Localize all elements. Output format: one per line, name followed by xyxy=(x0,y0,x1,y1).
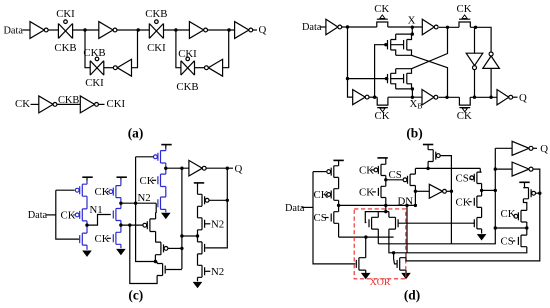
ground branch1 (c) xyxy=(83,251,91,257)
label Data (d) xyxy=(285,203,305,214)
svg-text:CK: CK xyxy=(15,98,30,110)
label CK of Md (d) xyxy=(359,165,374,177)
transistor Mx4 xor (d) xyxy=(397,258,406,270)
label XB (b) xyxy=(410,98,423,111)
wire T12 gate lead (c) xyxy=(166,269,182,271)
wire U5 out right (b) xyxy=(369,96,377,98)
wire feedback inv2 to node D xyxy=(223,30,229,68)
wire input gate line (c) xyxy=(56,190,80,239)
inverter 4 (a) xyxy=(235,22,253,39)
wire Mi gate lead (d) xyxy=(469,201,472,203)
node inverter tap (c) xyxy=(180,167,183,170)
svg-text:CS: CS xyxy=(389,169,402,181)
feedback inverter U11 (d) xyxy=(512,162,533,176)
wire Ml gate lead (d) xyxy=(513,215,516,217)
svg-text:CK: CK xyxy=(375,110,390,122)
wire Mx1 bottom down (d) xyxy=(377,229,379,244)
wire Mx4 top stub up (d) xyxy=(405,253,407,258)
label CK of Ml (d) xyxy=(501,208,516,220)
wire branch3 out to inverter (c) xyxy=(166,167,189,169)
wire bottom rail (d) xyxy=(495,227,527,229)
svg-text:CS-: CS- xyxy=(456,172,473,184)
transmission gate TG2 (a) xyxy=(149,20,163,39)
svg-text:CS: CS xyxy=(501,236,514,248)
transistor T6 blue nmos (c) xyxy=(113,232,121,244)
wire Mc gate lead (d) xyxy=(325,217,329,219)
wire keeper gate line (c) xyxy=(181,168,183,269)
label Data (c) xyxy=(28,210,48,221)
wire U6 out right (b) xyxy=(439,96,460,98)
vdd bar stack2 (d) xyxy=(377,157,387,159)
node DN tap3 (d) xyxy=(414,204,417,207)
node U9 out (d) xyxy=(450,190,453,193)
transistor Mc (d) xyxy=(331,212,338,224)
wire Md gate lead (d) xyxy=(371,169,374,171)
wire Mx2 bottom down (d) xyxy=(389,229,394,253)
wire Mx3 top stub up (d) xyxy=(365,237,367,258)
node B (a) xyxy=(137,28,140,31)
svg-text:CK: CK xyxy=(359,165,374,177)
wire Mf out to inverter (d) xyxy=(415,190,429,192)
label CKB below TG1 xyxy=(54,42,76,54)
wire inv2 to TG2 xyxy=(117,29,149,31)
svg-text:N2: N2 xyxy=(211,218,224,230)
node CS out (d) xyxy=(384,178,387,181)
label CK of M1 xyxy=(374,3,389,15)
wire Mk rail (d) xyxy=(523,182,526,210)
wire U5 out up to upper gate (b) xyxy=(375,45,388,97)
wire CK lead T2 (c) xyxy=(73,214,74,216)
node D (a) xyxy=(227,28,230,31)
inverter 1 (a) xyxy=(30,22,48,39)
wire xor source feedback rail (d) xyxy=(378,148,495,244)
wire N1 to T5 gate (c) xyxy=(87,215,111,226)
transistor T9 blue nmos (c) xyxy=(158,197,166,209)
label Q (b) xyxy=(519,92,527,104)
svg-text:X: X xyxy=(408,14,416,26)
node lower tap (c) xyxy=(128,223,131,226)
wire INVB input (d) xyxy=(495,168,512,170)
svg-text:XOR: XOR xyxy=(370,277,391,288)
svg-text:CKI: CKI xyxy=(178,48,197,60)
label N2 of T16 (c) xyxy=(211,266,224,278)
transistor Mk pmos mirrored (d) xyxy=(523,188,535,199)
svg-text:CS: CS xyxy=(314,212,327,224)
transistor Mm (d) xyxy=(518,235,526,247)
wire rail to stack5 top (d) xyxy=(479,168,481,172)
wire inv4 to Q xyxy=(253,29,257,31)
transistor T4 blue pmos (c) xyxy=(109,186,121,198)
wire node A down to feedback TG1 xyxy=(85,30,90,68)
clocked pass transistor M2 (b) xyxy=(459,18,470,27)
caption (a) xyxy=(128,125,144,140)
node N2 branch2 (c) xyxy=(119,202,122,205)
wire DN net (d) xyxy=(339,204,416,206)
node buffer line INVB in (d) xyxy=(494,167,497,170)
transistor Mg pmos mirrored (d) xyxy=(428,150,440,162)
label CK of Me (d) xyxy=(359,187,374,199)
label CK of M2 xyxy=(457,3,472,15)
transistor T10 pmos (c) xyxy=(143,219,156,232)
svg-text:CK: CK xyxy=(457,3,472,15)
ground xor left (d) xyxy=(362,273,370,279)
wire M5 drain rail to XB (b) xyxy=(411,89,413,97)
wire U9 out (d) xyxy=(447,190,452,192)
wire node C down to feedback TG2 xyxy=(176,30,181,68)
wire T12 top stub (c) xyxy=(156,262,158,264)
wire N2 drop to T10 (c) xyxy=(155,203,158,212)
input inverter U1 (b) xyxy=(326,19,342,35)
vdd bar Mg (d) xyxy=(423,144,433,146)
wire X node down to M3 drain rail (b) xyxy=(411,27,413,34)
feedback inverter 1 (a) xyxy=(113,59,131,76)
wire Mx3 bottom to ground (d) xyxy=(365,270,367,273)
node T13 gate tap (c) xyxy=(226,199,229,202)
label Q output (a) xyxy=(259,24,267,36)
node DN tap2 (d) xyxy=(405,204,408,207)
svg-text:CKI: CKI xyxy=(56,8,75,20)
clock marker M2 xyxy=(462,15,467,19)
wire TGf2 to feedback inverter 2 xyxy=(195,67,205,69)
label CKI below TG2 xyxy=(147,42,166,54)
rail stack1 (d) xyxy=(338,160,340,237)
svg-text:CKB: CKB xyxy=(83,47,105,59)
svg-text:CKB: CKB xyxy=(54,42,76,54)
wire N1 down to lower gate (b) xyxy=(348,27,353,97)
node J (b) xyxy=(411,87,414,90)
vdd bar stack6 (d) xyxy=(519,181,529,183)
caption (b) xyxy=(406,125,422,140)
wire cross-couple upper (b) xyxy=(412,27,448,68)
clock marker M7 xyxy=(380,108,385,112)
clock buffer inverter 1 (a) xyxy=(39,96,57,113)
label XOR (d) xyxy=(370,277,391,288)
svg-text:(a): (a) xyxy=(128,125,144,140)
wire T12 source loop (c) xyxy=(130,225,157,283)
xor dashed box (d) xyxy=(354,209,406,279)
clock buffer inverter 2 (a) xyxy=(80,96,98,113)
label CKB below TGf2 xyxy=(176,81,198,93)
svg-text:(c): (c) xyxy=(128,288,143,303)
wire branch2 lower out (c) xyxy=(121,224,143,226)
wire inv3 to inv4 xyxy=(208,29,235,31)
svg-text:Data: Data xyxy=(28,210,48,221)
keeper inverter U4 up (b) xyxy=(483,52,500,68)
label Q (d) xyxy=(540,143,548,155)
wire T11 bottom to junction (c) xyxy=(154,255,156,262)
wire Me gate lead (d) xyxy=(372,191,376,193)
wire CKB net xyxy=(57,103,80,105)
ground branch3 (c) xyxy=(162,213,170,219)
svg-text:CKB: CKB xyxy=(145,8,167,20)
label CS- of Mh (d) xyxy=(456,172,473,184)
svg-text:CK: CK xyxy=(374,3,389,15)
node T11 gate (c) xyxy=(180,247,183,250)
transistor Mi (d) xyxy=(474,196,481,207)
label CKB net (a) xyxy=(58,95,79,106)
wire U9 feedback down (d) xyxy=(450,191,452,244)
transistor T11 pmos mirrored (c) xyxy=(155,242,168,255)
wire U2 out right (b) xyxy=(439,26,459,28)
wire T14 gate lead (c) xyxy=(205,223,211,225)
rail stack3 (d) xyxy=(414,168,416,191)
wire CS net to Mf gate (d) xyxy=(386,179,405,181)
wire to CKI label xyxy=(98,103,104,105)
wire Mx1 top stub up (d) xyxy=(377,212,379,218)
node buffer line stack5 (d) xyxy=(494,189,497,192)
rail T10 to T11 (c) xyxy=(155,212,157,242)
output inverter U8 (c) xyxy=(189,160,206,176)
transistor Mh pmos (d) xyxy=(470,172,482,183)
rail branch3 (c) xyxy=(165,148,167,212)
rail branch2 (c) xyxy=(120,180,122,249)
node inverter in (d) xyxy=(414,190,417,193)
label CK input (a) xyxy=(15,98,30,110)
wire CK lead T6 (c) xyxy=(107,237,111,239)
node H (b) xyxy=(373,96,376,99)
wire Data to inverter xyxy=(23,29,31,31)
wire TG1 to inv2 xyxy=(73,29,99,31)
wire vdd stem branch2 (c) xyxy=(120,177,122,179)
wire Data lead (d) xyxy=(302,206,314,208)
transistor Ml pmos (d) xyxy=(514,210,527,222)
svg-text:CKB: CKB xyxy=(58,95,79,106)
node I (b) xyxy=(411,32,414,35)
clock marker M8 xyxy=(462,108,467,112)
wire U10 to Q (d) xyxy=(533,147,537,149)
rail branch1 (c) xyxy=(86,181,88,250)
node stack2 bottom (d) xyxy=(384,210,387,213)
wire Mm top stub (d) xyxy=(526,228,528,235)
wire M8 to output inverter (b) xyxy=(470,96,497,98)
clock marker M1 xyxy=(380,15,385,19)
wire Ml bottom (d) xyxy=(526,222,528,228)
node bottom rail right (d) xyxy=(525,226,528,229)
label CK of M7 xyxy=(375,110,390,122)
wire T11 gate to keeper line (c) xyxy=(168,247,182,249)
svg-text:CK: CK xyxy=(457,110,472,122)
keeper inverter U3 down (b) xyxy=(466,53,483,69)
rail stack5 (d) xyxy=(481,184,483,234)
wire into down inverter (b) xyxy=(474,27,476,53)
wire Mh gate lead (d) xyxy=(469,177,471,179)
node DN origin (d) xyxy=(337,204,340,207)
rail right stack (c) xyxy=(197,188,199,281)
node branch3 out (c) xyxy=(164,167,167,170)
wire U8 to Q (c) xyxy=(206,167,233,169)
transistor T14 (c) xyxy=(198,218,205,230)
wire DN drop (d) xyxy=(406,205,408,252)
node G (b) xyxy=(346,77,349,80)
label CKI above TGf2 xyxy=(178,48,197,60)
node A (a) xyxy=(83,28,86,31)
label N2 of T14 (c) xyxy=(211,218,224,230)
wire cross-couple lower (b) xyxy=(412,55,448,97)
node L (b) xyxy=(473,96,476,99)
wire stack2 bottom to xor gate (d) xyxy=(365,212,389,223)
transistor T12 mirrored (c) xyxy=(157,264,165,276)
wire TGf1 to feedback inverter 1 xyxy=(104,67,114,69)
svg-text:Q: Q xyxy=(540,143,548,155)
label Q (c) xyxy=(235,163,243,175)
transistor T16 (c) xyxy=(198,265,205,277)
wire Q feedback down (c) xyxy=(205,168,227,248)
node XB (b) xyxy=(411,96,414,99)
svg-text:CKI: CKI xyxy=(107,98,126,110)
svg-text:N2: N2 xyxy=(211,266,224,278)
transistor Me (d) xyxy=(378,186,385,197)
wire Mm bottom to xor (d) xyxy=(394,247,527,253)
wire U7 to Q (b) xyxy=(513,96,518,98)
wire Mx2 gate lead right (d) xyxy=(398,222,475,224)
label CK of M8 xyxy=(457,110,472,122)
svg-text:N1: N1 xyxy=(90,204,103,216)
transistor Mj (d) xyxy=(474,218,481,229)
wire inv1 to TG1 xyxy=(48,29,59,31)
wire keeper drain rail (d) xyxy=(415,167,480,169)
panel (b) label Data xyxy=(302,22,322,33)
transistor T13 pmos (c) xyxy=(198,194,210,206)
wire Mg gate lead (d) xyxy=(441,156,452,192)
caption (d) xyxy=(404,288,420,303)
vdd bar stack1 (d) xyxy=(333,159,343,161)
node xor gate junction (d) xyxy=(392,251,395,254)
svg-text:Q: Q xyxy=(235,163,243,175)
svg-text:Data: Data xyxy=(302,22,322,33)
transistor T3 blue nmos (c) xyxy=(80,233,87,245)
label X (b) xyxy=(408,14,416,26)
ground branch2 (c) xyxy=(117,249,125,255)
node M (b) xyxy=(489,96,492,99)
wire M2 to keeper (b) xyxy=(470,27,491,51)
feedback inverter 2 (a) xyxy=(205,59,223,76)
feedback transmission gate TGf2 (a) xyxy=(181,57,195,75)
svg-text:N2: N2 xyxy=(138,192,151,204)
lower series transistor pair M5 M6 (b) xyxy=(388,69,413,89)
transistor Md pmos (d) xyxy=(374,164,386,175)
label CK of T8 (c) xyxy=(140,175,155,187)
node C (a) xyxy=(174,28,177,31)
node K (b) xyxy=(445,96,448,99)
transistor Mx1 xor (d) xyxy=(369,217,378,229)
svg-text:(d): (d) xyxy=(404,288,420,303)
label CK of Mb (d) xyxy=(314,189,329,201)
label N1 (c) xyxy=(90,204,103,216)
svg-text:Data: Data xyxy=(4,25,24,36)
wire Mf bottom to DN (d) xyxy=(414,191,416,205)
ground right stack (c) xyxy=(193,282,201,288)
wire T13 gate lead (c) xyxy=(209,199,227,201)
inverter U2 at X (b) xyxy=(422,19,438,35)
clocked pass transistor M7 (b) xyxy=(377,97,388,108)
wire CK lead T4 (c) xyxy=(107,191,108,193)
label CK of Mi (d) xyxy=(456,196,471,208)
wire Mx4 bottom to ground (d) xyxy=(405,270,407,273)
node T14-T15 junction (c) xyxy=(196,234,199,237)
svg-text:CK: CK xyxy=(359,187,374,199)
vdd bar branch3 (c) xyxy=(161,144,171,146)
label CK of T4 (c) xyxy=(95,186,110,198)
wire T7 gate lead (c) xyxy=(136,156,154,158)
transmission gate TG1 (a) xyxy=(58,20,72,39)
wire Ma gate lead (d) xyxy=(313,171,326,173)
wire Mm gate lead (d) xyxy=(513,240,515,242)
wire Mg stubs rail (d) xyxy=(427,145,429,169)
inverter U9 (d) xyxy=(429,184,446,198)
transistor Ma pmos (d) xyxy=(327,166,339,178)
wire T7 gate line (c) xyxy=(136,157,156,262)
transistor Mx2 xor mirrored (d) xyxy=(389,217,398,229)
svg-text:CK: CK xyxy=(501,208,516,220)
wire Data to inverter (b) xyxy=(320,26,326,28)
vdd bar branch1 (c) xyxy=(82,176,92,178)
inverter 3 (a) xyxy=(189,22,207,39)
wire CK lead T8 (c) xyxy=(152,179,156,181)
wire vdd stem branch1 (c) xyxy=(86,177,88,180)
svg-text:CKB: CKB xyxy=(176,81,198,93)
inverter U5 bottom-left (b) xyxy=(353,90,369,105)
node E (b) xyxy=(446,26,449,29)
wire INVA input (d) xyxy=(495,147,512,149)
svg-text:CKI: CKI xyxy=(85,77,104,89)
upper series transistor pair M3 M4 (b) xyxy=(388,34,413,55)
svg-text:CKI: CKI xyxy=(147,42,166,54)
inverter 2 (a) xyxy=(99,22,117,39)
node keeper line tap (c) xyxy=(180,234,183,237)
node N2 tap (c) xyxy=(134,202,137,205)
output inverter U10 (d) xyxy=(512,141,533,155)
svg-text:CK: CK xyxy=(456,196,471,208)
label CKI below TGf1 xyxy=(85,77,104,89)
wire U11 feedback (d) xyxy=(406,169,540,261)
node Mg drain (d) xyxy=(426,167,429,170)
wire inv out to CK pass transistor (b) xyxy=(342,26,377,28)
node X (b) xyxy=(411,26,414,29)
clocked pass transistor M1 (b) xyxy=(377,18,388,27)
label CS of Mm (d) xyxy=(501,236,514,248)
label CKB above TGf1 xyxy=(83,47,105,59)
wire Mx4 gate lead (d) xyxy=(394,253,397,264)
transistor T15 (c) xyxy=(198,242,205,254)
clocked pass transistor M8 (b) xyxy=(459,97,470,108)
wire U4 input from bottom rail (b) xyxy=(490,68,492,97)
gate node of M5 (b) xyxy=(385,77,388,80)
wire N2 net (c) xyxy=(121,202,156,204)
label CS of Mc (d) xyxy=(314,212,327,224)
ground stack5 (d) xyxy=(477,234,485,240)
label CKI net (a) xyxy=(107,98,126,110)
label N2 (c) xyxy=(138,192,151,204)
node T5-T6 junction (c) xyxy=(119,223,122,226)
transistor T8 blue nmos (c) xyxy=(158,174,166,186)
node buffer line bottom (d) xyxy=(494,226,497,229)
wire Mk gate lead (d) xyxy=(536,192,540,194)
node N1 (c) xyxy=(85,223,88,226)
svg-text:Q: Q xyxy=(259,24,267,36)
wire feedback inv1 to node B xyxy=(132,30,138,68)
node F (b) xyxy=(474,26,477,29)
ground xor right (d) xyxy=(402,273,410,279)
node N1 (b) xyxy=(346,25,349,28)
node Q (c) xyxy=(226,167,229,170)
wire lower gate feed (b) xyxy=(348,78,389,80)
node xor left source tap (d) xyxy=(364,235,367,238)
output inverter U7 (b) xyxy=(497,90,513,105)
label DN (d) xyxy=(398,195,414,207)
wire vdd stem right stack (c) xyxy=(197,183,199,188)
feedback transmission gate TGf1 (a) xyxy=(90,57,104,75)
node Mk gate (d) xyxy=(538,192,541,195)
